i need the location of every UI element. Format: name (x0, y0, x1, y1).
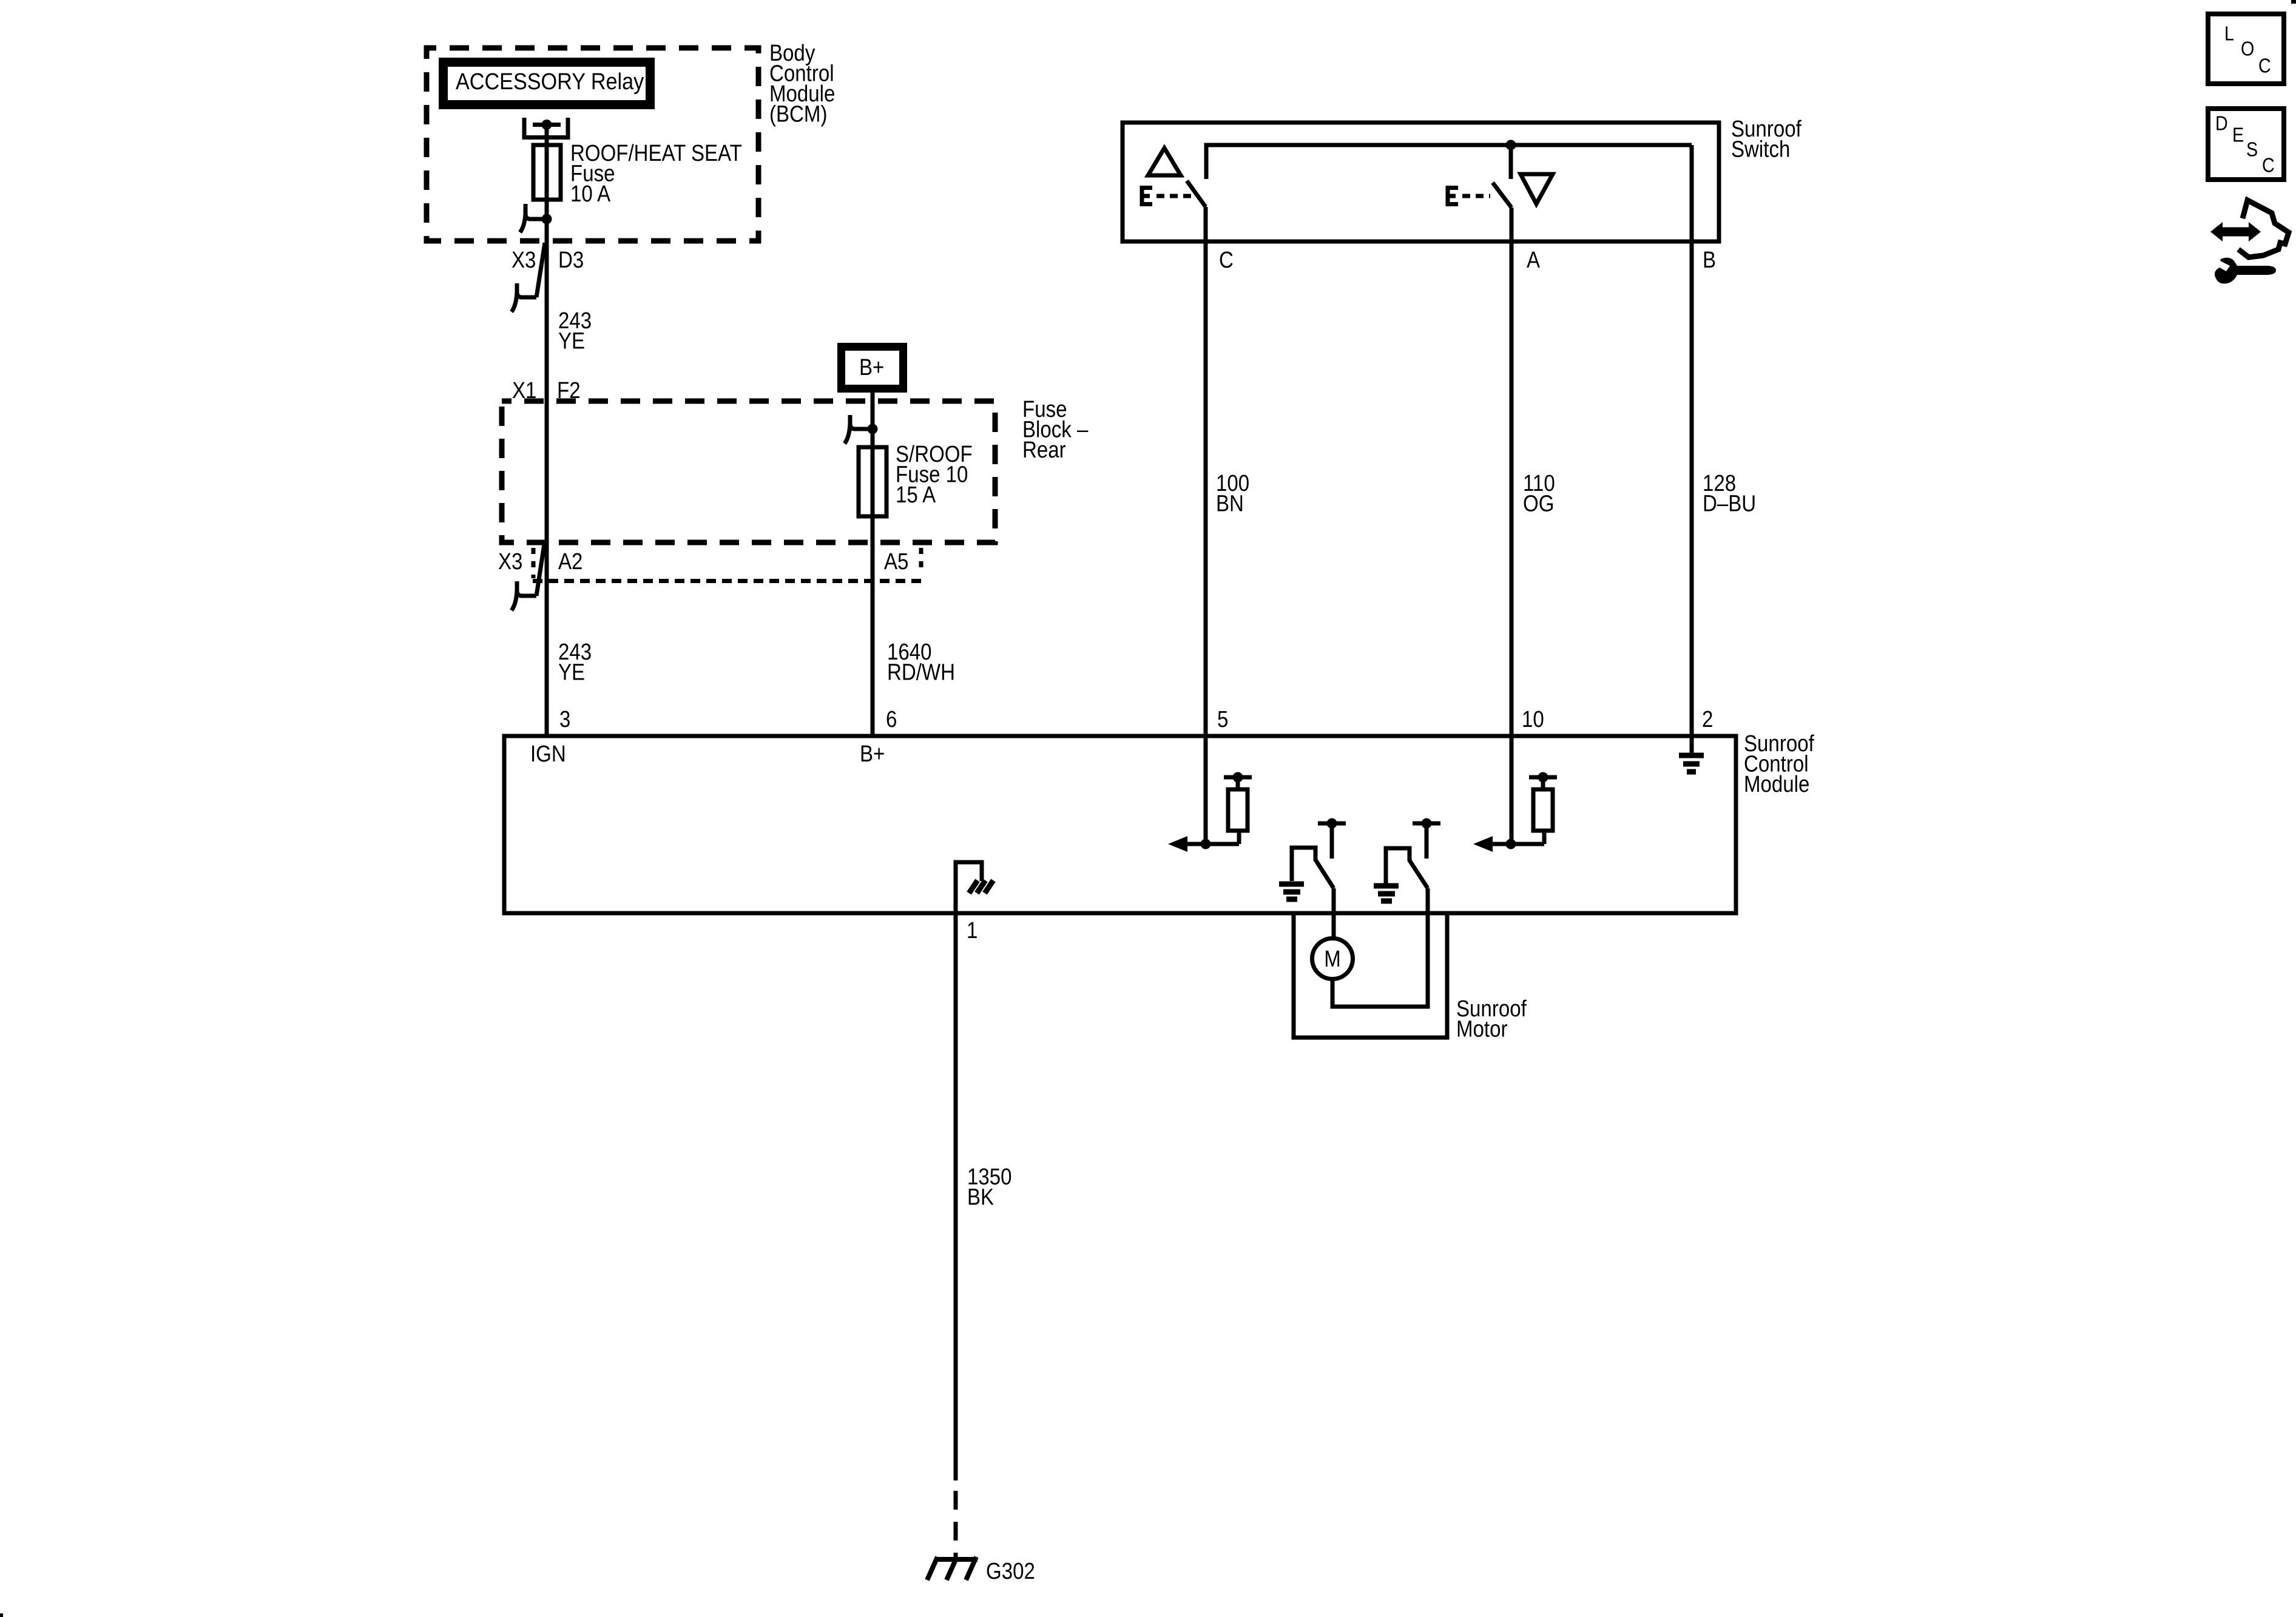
driver Q1 output contact (1318, 819, 1346, 859)
Sunroof Motor box (1294, 913, 1447, 1038)
driver Q1 movable contact (1292, 848, 1334, 888)
connector boundary dotted line (533, 548, 921, 581)
svg-text:Motor: Motor (1456, 1016, 1508, 1042)
junction dot below fuse (542, 214, 552, 224)
ACCESSORY Relay box (439, 58, 655, 109)
resistor R2 pull-up (1529, 772, 1557, 831)
junction dot at S/ROOF fuse input (868, 424, 878, 434)
svg-text:L: L (2224, 22, 2234, 45)
Fuse Block - Rear dashed box (502, 401, 995, 542)
terminal clip at S/ROOF fuse input (845, 415, 868, 444)
svg-text:C: C (1219, 247, 1234, 273)
svg-text:A: A (1527, 247, 1540, 273)
svg-text:15 A: 15 A (896, 482, 936, 508)
switch blade (open) (1187, 181, 1206, 207)
svg-text:D3: D3 (558, 247, 584, 273)
svg-text:Module: Module (1744, 771, 1809, 797)
connector X3 pin A2 separator (512, 540, 545, 610)
wire 243 YE from relay through fuse to module pin 3 (545, 146, 549, 736)
svg-text:E: E (2232, 124, 2244, 146)
resistor R1 pull-up (1224, 772, 1252, 831)
wire 100 BN pin C (1204, 207, 1208, 844)
svg-text:5: 5 (1217, 706, 1228, 732)
svg-text:RD/WH: RD/WH (887, 659, 955, 685)
ground bars driver Q1 (1279, 884, 1304, 899)
switch common line (1206, 145, 1692, 179)
ground G302 (927, 1557, 977, 1580)
wire driver Q1 to motor (1332, 888, 1336, 939)
down triangle symbol (1521, 174, 1553, 204)
svg-text:Rear: Rear (1022, 437, 1066, 463)
svg-text:B+: B+ (860, 741, 885, 767)
svg-text:G302: G302 (986, 1558, 1035, 1584)
wire 1640 RD/WH from B+ through fuse to module pin 6 (871, 393, 875, 736)
svg-text:ACCESSORY Relay: ACCESSORY Relay (456, 68, 644, 94)
pin 10 sense arrow (1473, 831, 1544, 852)
internal ground at pin 1 (956, 862, 993, 913)
fuse ROOF/HEAT SEAT 10 A (533, 145, 561, 200)
svg-text:C: C (2258, 55, 2271, 77)
Sunroof Switch box (1123, 123, 1719, 241)
svg-text:S: S (2246, 138, 2258, 161)
svg-text:O: O (2241, 38, 2254, 60)
terminal clip at fuse output (520, 204, 542, 232)
E linkage symbol (open switch) (1140, 186, 1193, 206)
svg-text:(BCM): (BCM) (769, 101, 827, 127)
removal direction icon (2210, 200, 2289, 283)
driver Q2 movable contact (1386, 848, 1428, 888)
relay K1 contact output symbol (524, 118, 568, 146)
B+ power label box (837, 343, 907, 393)
svg-text:2: 2 (1702, 706, 1713, 732)
page corner mark top right (2291, 0, 2296, 4)
svg-text:1: 1 (967, 917, 977, 944)
svg-text:B+: B+ (859, 354, 884, 380)
svg-text:M: M (1324, 946, 1341, 972)
wire 110 OG pin A (1510, 208, 1514, 844)
svg-text:3: 3 (559, 706, 570, 732)
LOC box (2208, 14, 2284, 84)
svg-text:B: B (1703, 247, 1716, 273)
up triangle symbol (1148, 148, 1181, 175)
fuse S/ROOF 15 A (859, 447, 886, 516)
svg-text:C: C (2262, 154, 2275, 177)
wire 1350 BK (954, 913, 958, 1480)
svg-text:6: 6 (886, 706, 897, 732)
driver Q2 output contact (1413, 819, 1440, 859)
svg-text:IGN: IGN (530, 741, 566, 767)
E linkage symbol (close switch) (1446, 186, 1490, 206)
svg-text:X3: X3 (512, 247, 536, 273)
Body Control Module (BCM) dashed box (427, 48, 758, 241)
internal ground at pin 2 (1679, 736, 1704, 772)
wire 128 D-BU pin B (1690, 145, 1694, 753)
svg-text:D: D (2215, 112, 2228, 135)
DESC box (2208, 109, 2284, 180)
switch blade (close) (1493, 183, 1511, 208)
svg-text:Switch: Switch (1731, 136, 1790, 162)
contact stub for open switch (1509, 145, 1513, 179)
svg-text:10 A: 10 A (570, 181, 610, 207)
junction dot on common line (1506, 140, 1516, 150)
pin 5 sense arrow (1168, 831, 1239, 852)
svg-text:A2: A2 (558, 549, 582, 575)
svg-text:D–BU: D–BU (1703, 490, 1756, 516)
svg-text:X3: X3 (498, 549, 522, 575)
connector X3 pin D3 separator (512, 243, 545, 312)
motor M1 (1312, 939, 1353, 979)
svg-text:A5: A5 (884, 549, 908, 575)
svg-text:YE: YE (558, 659, 585, 685)
svg-text:BN: BN (1216, 490, 1244, 516)
svg-text:YE: YE (558, 328, 585, 354)
svg-text:OG: OG (1523, 490, 1554, 516)
page corner mark bottom left (0, 1613, 3, 1617)
wire driver Q2 to motor return (1332, 888, 1428, 1007)
wire 1350 BK dashed continuation (954, 1491, 958, 1559)
svg-text:10: 10 (1522, 706, 1544, 732)
ground bars driver Q2 (1374, 886, 1399, 901)
svg-text:BK: BK (967, 1184, 994, 1210)
Sunroof Control Module box (504, 736, 1736, 913)
